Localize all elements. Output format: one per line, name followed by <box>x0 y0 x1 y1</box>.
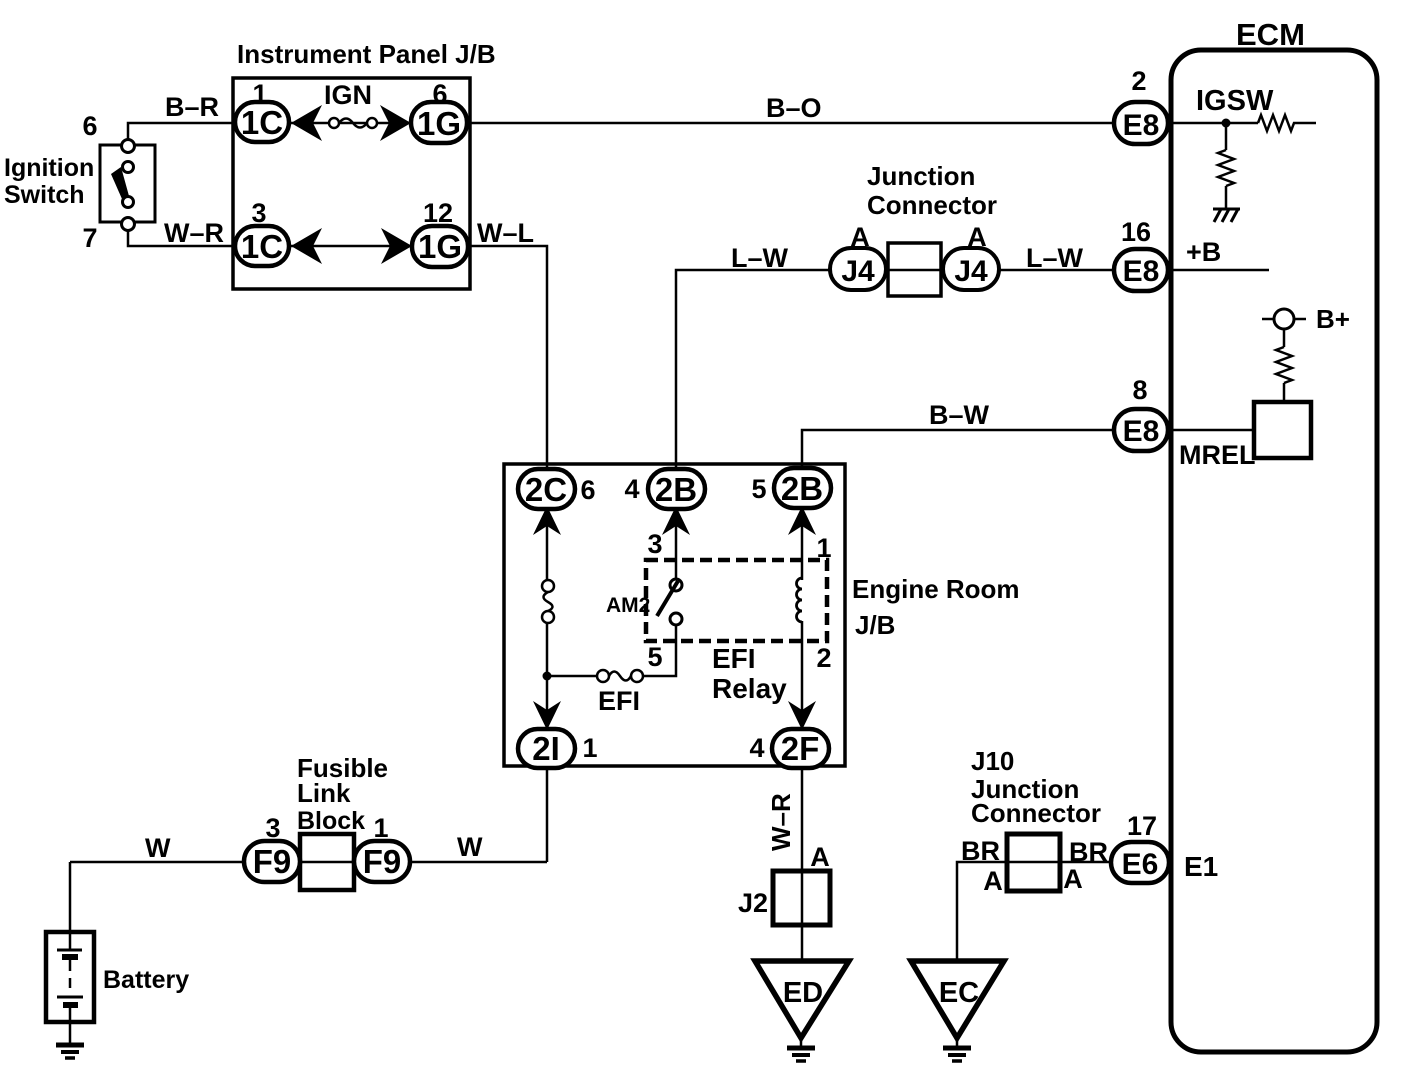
svg-text:Engine Room: Engine Room <box>852 574 1020 604</box>
connector 2B pin4 <box>624 469 705 509</box>
J10 connector box <box>1007 834 1060 891</box>
connector 2B pin5 <box>751 468 831 508</box>
pin 6 label <box>82 111 97 141</box>
E1 net label <box>1184 851 1218 882</box>
svg-text:W: W <box>145 833 171 863</box>
arrow down to 2I <box>533 701 561 730</box>
svg-text:6: 6 <box>432 79 447 109</box>
relay pin 3 label <box>647 529 662 559</box>
svg-text:2B: 2B <box>655 471 697 508</box>
MREL driver block <box>1179 402 1311 470</box>
svg-text:A: A <box>983 866 1003 896</box>
svg-text:B–R: B–R <box>165 92 219 122</box>
svg-text:E8: E8 <box>1123 109 1160 142</box>
svg-text:Link: Link <box>297 778 351 808</box>
svg-text:Instrument Panel J/B: Instrument Panel J/B <box>237 39 496 69</box>
svg-text:5: 5 <box>647 642 662 672</box>
wire BR from EC up to E6 <box>957 862 1111 961</box>
wire B-O from 1G to ECM E8 pin2 <box>467 93 1114 123</box>
svg-text:2B: 2B <box>781 470 823 507</box>
fuse EFI <box>597 670 643 716</box>
ground ED <box>787 1038 815 1061</box>
wire L-W from J4 to E8 pin16 <box>999 243 1114 273</box>
resistor IGSW vertical <box>1218 127 1234 208</box>
svg-text:Junction: Junction <box>867 161 975 191</box>
svg-text:E8: E8 <box>1123 415 1160 448</box>
svg-text:1: 1 <box>252 79 267 109</box>
svg-text:4: 4 <box>624 474 639 504</box>
junction connector box <box>888 243 941 296</box>
connector 2I <box>518 729 598 768</box>
connector E8 pin2 <box>1114 66 1168 144</box>
svg-text:A: A <box>967 222 987 252</box>
wire between 1C and 1G top with arrows <box>289 105 411 141</box>
svg-text:L–W: L–W <box>731 243 789 273</box>
svg-text:3: 3 <box>265 813 280 843</box>
svg-text:A: A <box>850 222 870 252</box>
ground IGSW <box>1213 209 1240 222</box>
wire L-W from junction down to 2B <box>676 243 830 469</box>
svg-text:3: 3 <box>647 529 662 559</box>
ground EC <box>943 1038 971 1061</box>
connector J4 right <box>943 222 999 290</box>
svg-text:J4: J4 <box>954 255 988 288</box>
svg-text:F9: F9 <box>253 843 292 880</box>
svg-text:ECM: ECM <box>1236 17 1305 52</box>
svg-text:E6: E6 <box>1122 848 1159 881</box>
node junction dot <box>543 672 552 681</box>
wire from E8 pin8 to MREL block <box>1171 429 1254 432</box>
wire 2I down to main W line <box>546 768 549 862</box>
svg-text:2C: 2C <box>525 471 567 508</box>
relay switch AM2 <box>606 579 682 625</box>
svg-text:J4: J4 <box>841 255 875 288</box>
svg-text:EC: EC <box>939 977 979 1009</box>
wire W from F9 to 2I column <box>410 832 547 862</box>
EFI relay dashed box <box>646 560 827 704</box>
svg-text:W–R: W–R <box>164 218 224 248</box>
fuse in 2C column <box>542 580 554 623</box>
fuse IGN <box>324 80 377 128</box>
wire junction to EFI fuse to relay pin5 <box>547 625 676 676</box>
svg-text:4: 4 <box>749 733 764 763</box>
svg-text:1: 1 <box>373 813 388 843</box>
A label right <box>1063 864 1083 894</box>
svg-text:BR: BR <box>1069 837 1108 867</box>
svg-text:BR: BR <box>961 836 1000 866</box>
BR label right <box>1069 837 1108 867</box>
svg-text:12: 12 <box>423 198 453 228</box>
svg-text:E1: E1 <box>1184 851 1218 882</box>
svg-text:J/B: J/B <box>855 610 895 640</box>
svg-text:Block: Block <box>297 807 365 835</box>
svg-text:IGN: IGN <box>324 80 372 110</box>
+B net inside ECM <box>1171 237 1269 270</box>
svg-text:EFI: EFI <box>598 686 640 716</box>
svg-text:Battery: Battery <box>103 966 189 994</box>
svg-text:B+: B+ <box>1316 304 1350 334</box>
connector 2F <box>749 729 829 768</box>
resistor B+ vertical <box>1276 329 1292 402</box>
connector 1C pin3 <box>235 198 289 266</box>
wire 2B right column <box>801 508 804 729</box>
svg-text:1G: 1G <box>417 105 461 142</box>
svg-text:1G: 1G <box>418 228 462 265</box>
resistor IGSW horizontal <box>1258 115 1316 131</box>
svg-text:J10: J10 <box>971 746 1014 776</box>
IGSW net inside ECM <box>1171 85 1274 128</box>
ground point ED <box>755 961 849 1038</box>
ground point EC <box>911 961 1004 1038</box>
svg-text:2: 2 <box>1131 66 1146 96</box>
svg-text:W–R: W–R <box>766 793 796 851</box>
svg-text:5: 5 <box>751 474 766 504</box>
connector E6 pin17 <box>1111 811 1169 883</box>
svg-text:MREL: MREL <box>1179 440 1256 470</box>
svg-text:IGSW: IGSW <box>1196 85 1274 117</box>
connector F9 pin3 <box>244 813 300 882</box>
svg-text:ED: ED <box>783 977 823 1009</box>
svg-text:1: 1 <box>816 533 831 563</box>
junction connector J4 title <box>867 161 997 220</box>
svg-text:16: 16 <box>1121 217 1151 247</box>
wire W-R ignition switch pin7 to 1C <box>128 218 235 248</box>
A label left <box>983 866 1003 896</box>
arrow up to 2B middle <box>662 506 690 535</box>
svg-text:EFI: EFI <box>712 643 756 674</box>
arrow down to 2F <box>788 701 816 730</box>
svg-text:W–L: W–L <box>477 218 534 248</box>
svg-text:J2: J2 <box>738 888 768 918</box>
wire 2B middle column <box>675 509 678 579</box>
connector 1C pin1 <box>235 79 289 142</box>
svg-text:L–W: L–W <box>1026 243 1084 273</box>
relay pin 1 label <box>816 533 831 563</box>
svg-text:1C: 1C <box>241 104 283 141</box>
connector J4 left <box>830 222 886 290</box>
connector 2C <box>518 469 596 509</box>
ground battery <box>56 1045 84 1058</box>
wire W from battery to F9 <box>70 833 244 863</box>
svg-text:2: 2 <box>816 643 831 673</box>
wire W-R 2F down to ED <box>766 768 802 961</box>
connector F9 pin1 <box>354 813 410 882</box>
relay pin 5 label <box>647 642 662 672</box>
connector 1G pin6 <box>411 79 467 143</box>
connector E8 pin16 <box>1114 217 1168 291</box>
ignition switch <box>4 140 155 231</box>
svg-text:6: 6 <box>82 111 97 141</box>
svg-text:1C: 1C <box>241 228 283 265</box>
wire between 1C and 1G bottom with arrows <box>289 228 412 264</box>
svg-text:F9: F9 <box>363 843 402 880</box>
arrow up to 2B right <box>788 506 816 535</box>
svg-text:+B: +B <box>1186 237 1221 267</box>
relay pin 2 label <box>816 643 831 673</box>
svg-text:B–O: B–O <box>766 93 822 123</box>
svg-text:2I: 2I <box>532 730 560 767</box>
svg-text:Connector: Connector <box>867 190 997 220</box>
svg-text:A: A <box>810 842 830 872</box>
ECM box <box>1171 17 1377 1052</box>
connector E8 pin8 <box>1114 375 1168 451</box>
Instrument Panel J/B box <box>233 39 496 289</box>
svg-text:1: 1 <box>582 733 597 763</box>
svg-text:Connector: Connector <box>971 798 1101 828</box>
svg-text:W: W <box>457 832 483 862</box>
wire B-R ignition switch pin6 to 1C <box>128 92 235 140</box>
battery <box>46 862 189 1043</box>
J10 junction connector title <box>971 746 1101 828</box>
svg-text:8: 8 <box>1132 375 1147 405</box>
relay coil <box>797 578 802 622</box>
svg-text:Switch: Switch <box>4 181 85 209</box>
wire 2C column <box>546 469 549 729</box>
svg-text:6: 6 <box>580 475 595 505</box>
fusible link block title <box>297 753 388 835</box>
pin 7 label <box>82 223 97 253</box>
BR label left <box>961 836 1000 866</box>
connector 1G pin12 <box>412 198 468 267</box>
svg-text:Ignition: Ignition <box>4 154 94 182</box>
svg-text:17: 17 <box>1127 811 1157 841</box>
arrow up to 2C <box>533 506 561 535</box>
fusible link block box <box>300 834 354 890</box>
svg-text:3: 3 <box>251 198 266 228</box>
svg-text:2F: 2F <box>781 730 820 767</box>
connector J2 <box>738 842 830 925</box>
svg-text:E8: E8 <box>1123 255 1160 288</box>
Engine Room J/B box <box>504 464 1020 766</box>
B+ supply symbol <box>1262 304 1350 334</box>
svg-text:A: A <box>1063 864 1083 894</box>
wire B-W from 2B pin5 to E8 pin8 <box>802 400 1114 468</box>
wire W-L from 1G pin12 down to 2C <box>468 218 547 469</box>
svg-text:B–W: B–W <box>929 400 990 430</box>
svg-text:AM2: AM2 <box>606 594 650 617</box>
svg-text:Relay: Relay <box>712 673 787 704</box>
svg-text:7: 7 <box>82 223 97 253</box>
